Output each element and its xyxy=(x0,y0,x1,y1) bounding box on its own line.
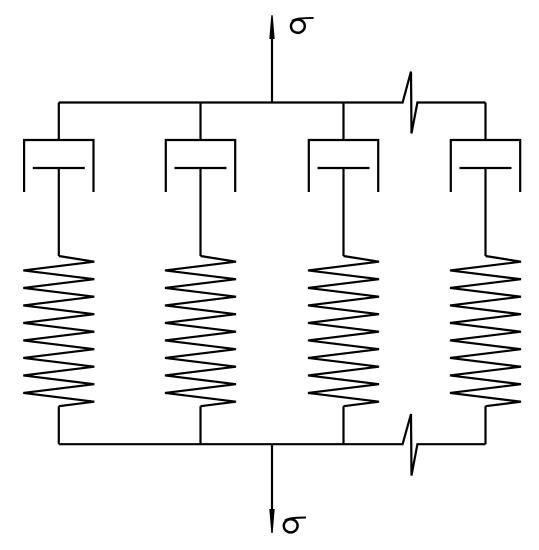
spring 4 xyxy=(450,256,521,406)
label sigma (bottom): top bar stroke xyxy=(285,518,306,521)
dashpot 4 piston plate xyxy=(460,167,512,169)
spring 1 xyxy=(23,256,94,406)
stress arrow up (sigma), shaft xyxy=(271,36,273,103)
spring 2 xyxy=(165,256,236,406)
wire: spring 2 to bottom bar xyxy=(199,406,201,444)
wire: spring 4 to bottom bar xyxy=(484,406,486,444)
stress arrow down (sigma), head xyxy=(269,509,274,533)
dashpot 2 piston plate xyxy=(175,167,227,169)
wire: top bar to dashpot 4 xyxy=(484,103,486,141)
label sigma (bottom): bowl xyxy=(283,518,299,533)
wire: top bar to dashpot 1 xyxy=(58,103,60,141)
dashpot 1 piston plate xyxy=(33,167,85,169)
spring 3 xyxy=(308,256,379,406)
wire: dashpot 1 piston rod to spring 1 xyxy=(58,168,60,256)
wire: spring 1 to bottom bar xyxy=(58,406,60,444)
label sigma (top): top bar stroke xyxy=(292,18,314,21)
stress arrow down (sigma), shaft xyxy=(271,444,273,510)
wire: dashpot 3 piston rod to spring 3 xyxy=(342,168,344,256)
wire: top bar to dashpot 2 xyxy=(199,103,201,141)
top bar (rigid plate) with break symbol xyxy=(59,72,486,134)
label sigma (top): bowl xyxy=(290,19,306,34)
wire: dashpot 4 piston rod to spring 4 xyxy=(484,168,486,256)
wire: spring 3 to bottom bar xyxy=(342,406,344,444)
dashpot 1 cylinder xyxy=(24,140,93,192)
dashpot 4 cylinder xyxy=(451,140,520,192)
stress arrow up (sigma), head xyxy=(269,15,274,39)
bottom bar (rigid plate) with break symbol xyxy=(59,414,486,476)
dashpot 3 cylinder xyxy=(309,140,378,192)
wire: dashpot 2 piston rod to spring 2 xyxy=(199,168,201,256)
wire: top bar to dashpot 3 xyxy=(342,103,344,141)
dashpot 2 cylinder xyxy=(166,140,235,192)
dashpot 3 piston plate xyxy=(318,167,370,169)
